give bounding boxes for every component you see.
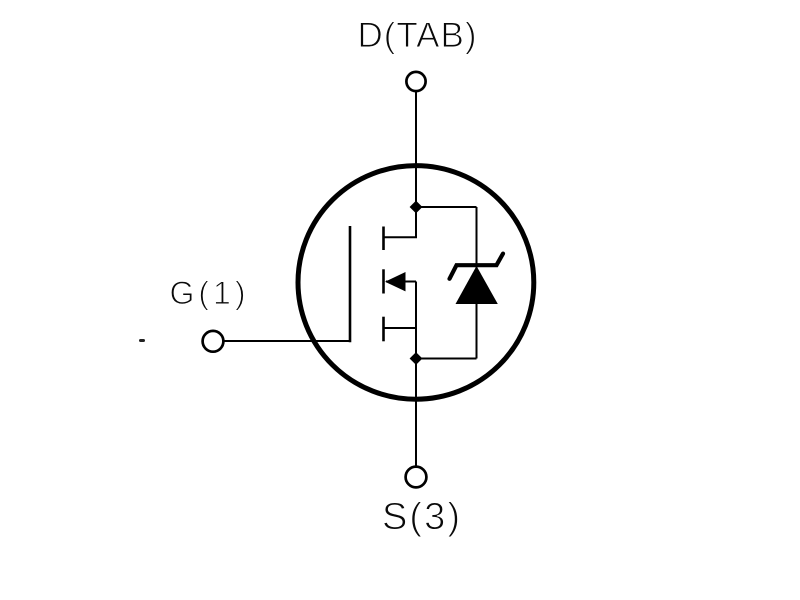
node drain dot [410, 201, 423, 214]
svg-text:D(TAB): D(TAB) [358, 16, 477, 55]
wire node to diode bottom [416, 358, 477, 360]
svg-text:S(3): S(3) [382, 496, 460, 538]
body arrow wire [386, 281, 416, 283]
zener cathode bar [450, 254, 504, 279]
terminal S circle [406, 467, 427, 488]
terminal G circle [203, 331, 224, 352]
label D(TAB) [358, 16, 477, 55]
MOSFET body circle [298, 166, 534, 400]
wire gate lead [224, 340, 351, 342]
label G(1) [170, 275, 246, 311]
wire source node to S terminal [415, 359, 417, 467]
wire node to drain lead [415, 207, 417, 237]
label S(3) [382, 496, 460, 538]
zener diode triangle D1 [456, 266, 498, 304]
terminal D circle [406, 72, 425, 91]
channel segment middle [382, 269, 385, 293]
node source dot [410, 352, 423, 365]
wire source lead horizontal [384, 327, 417, 329]
body arrow head [385, 272, 406, 291]
channel segment bottom [382, 317, 385, 342]
wire diode branch vertical [476, 207, 478, 359]
wire drain lead horizontal [384, 236, 418, 238]
channel segment top [382, 227, 385, 251]
stray dash mark [139, 339, 145, 342]
wire drain terminal to node [415, 92, 417, 208]
svg-text:G(1): G(1) [170, 275, 246, 311]
gate bar [349, 226, 352, 342]
wire node to diode top [416, 206, 477, 208]
wire body to source node [415, 282, 417, 359]
